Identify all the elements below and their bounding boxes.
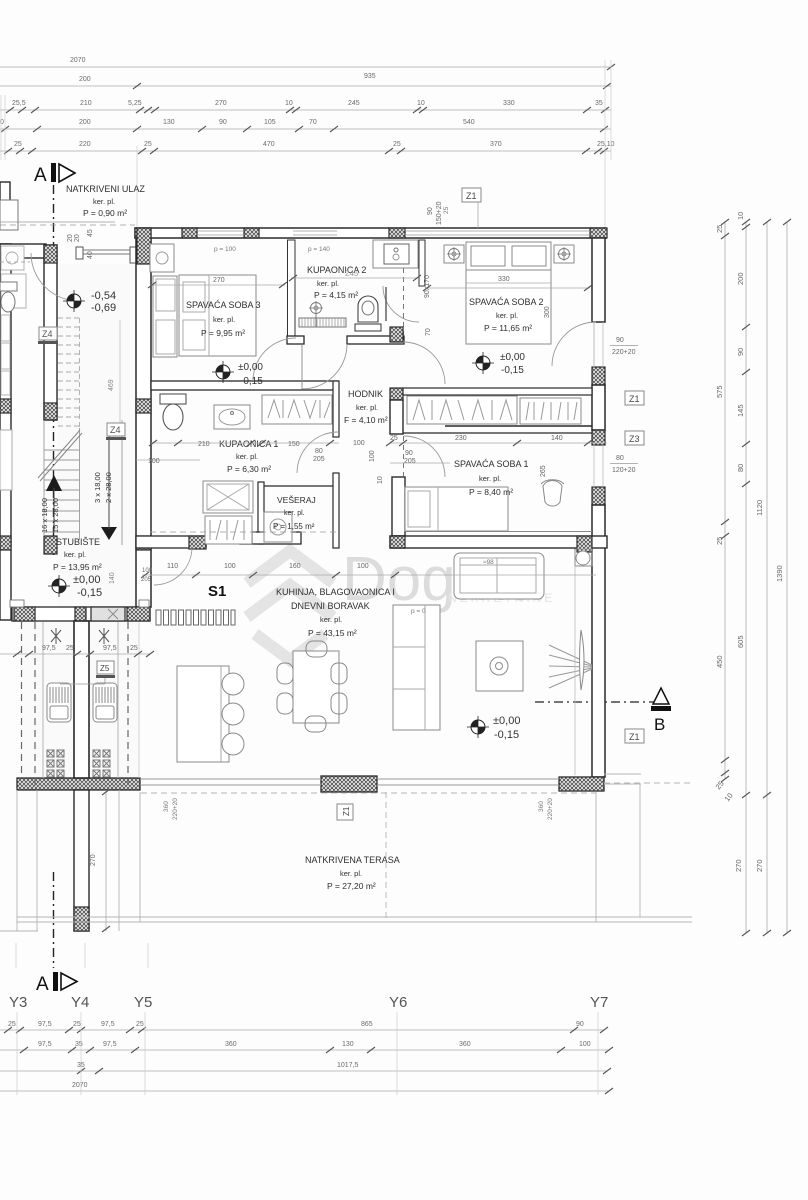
svg-text:97,5: 97,5 — [42, 645, 56, 652]
svg-text:145: 145 — [736, 404, 745, 417]
svg-text:370: 370 — [490, 141, 502, 148]
svg-text:2070: 2070 — [72, 1082, 88, 1089]
svg-text:100: 100 — [224, 563, 236, 570]
svg-text:-0,15: -0,15 — [501, 365, 524, 376]
svg-text:VEŠERAJ: VEŠERAJ — [277, 495, 316, 505]
svg-text:25,5: 25,5 — [12, 100, 26, 107]
svg-text:Y3: Y3 — [9, 994, 27, 1011]
svg-text:360: 360 — [163, 801, 170, 812]
svg-text:90: 90 — [427, 207, 434, 215]
svg-text:Z1: Z1 — [342, 806, 351, 816]
svg-text:25: 25 — [393, 141, 401, 148]
svg-text:205: 205 — [141, 577, 152, 583]
svg-text:16 x 18,00: 16 x 18,00 — [40, 498, 49, 533]
svg-text:35: 35 — [75, 1041, 83, 1048]
svg-text:100: 100 — [148, 458, 160, 465]
svg-text:97,5: 97,5 — [103, 645, 117, 652]
svg-text:20: 20 — [74, 234, 81, 242]
svg-text:575: 575 — [715, 385, 724, 398]
svg-text:300: 300 — [544, 306, 551, 318]
svg-text:130: 130 — [342, 1041, 354, 1048]
svg-text:STUBIŠTE: STUBIŠTE — [56, 537, 100, 547]
svg-text:140: 140 — [551, 435, 563, 442]
svg-text:NATKRIVENA TERASA: NATKRIVENA TERASA — [305, 855, 400, 865]
svg-text:25: 25 — [715, 225, 724, 233]
svg-text:10: 10 — [285, 100, 293, 107]
svg-text:205: 205 — [313, 456, 325, 463]
svg-text:KUHINJA, BLAGOVAONICA I: KUHINJA, BLAGOVAONICA I — [276, 587, 395, 597]
svg-text:90: 90 — [576, 1021, 584, 1028]
svg-text:97,5: 97,5 — [103, 1041, 117, 1048]
svg-text:35: 35 — [595, 100, 603, 107]
svg-text:25: 25 — [715, 537, 724, 545]
svg-text:200: 200 — [736, 272, 745, 285]
svg-text:540: 540 — [463, 119, 475, 126]
svg-text:±0,00: ±0,00 — [238, 362, 263, 373]
svg-text:20: 20 — [67, 234, 74, 242]
svg-text:P = 27,20 m²: P = 27,20 m² — [327, 881, 376, 891]
svg-text:130: 130 — [163, 119, 175, 126]
svg-text:P = 11,65 m²: P = 11,65 m² — [484, 323, 532, 333]
svg-text:S1: S1 — [208, 583, 226, 600]
svg-text:p = 140: p = 140 — [308, 246, 330, 253]
svg-text:25: 25 — [390, 435, 398, 442]
svg-text:220+20: 220+20 — [547, 798, 554, 820]
svg-text:25: 25 — [130, 645, 138, 652]
svg-text:15 x 28,00: 15 x 28,00 — [51, 498, 60, 533]
svg-text:270: 270 — [213, 277, 225, 284]
svg-text:470: 470 — [263, 141, 275, 148]
svg-text:5,25: 5,25 — [128, 100, 142, 107]
svg-text:2070: 2070 — [70, 57, 86, 64]
svg-text:245: 245 — [348, 100, 360, 107]
svg-text:150: 150 — [288, 441, 300, 448]
svg-text:25: 25 — [14, 141, 22, 148]
svg-text:100: 100 — [369, 450, 376, 462]
svg-text:ker. pl.: ker. pl. — [340, 869, 362, 878]
svg-text:HODNIK: HODNIK — [348, 389, 383, 399]
svg-text:245: 245 — [345, 269, 359, 278]
svg-text:200: 200 — [79, 119, 91, 126]
svg-text:25: 25 — [144, 141, 152, 148]
svg-text:90: 90 — [616, 337, 624, 344]
svg-text:P = 1,55 m²: P = 1,55 m² — [273, 522, 315, 531]
svg-text:±0,00: ±0,00 — [493, 715, 520, 727]
svg-text:A: A — [34, 165, 47, 186]
svg-text:10: 10 — [377, 476, 384, 484]
svg-text:210: 210 — [198, 441, 210, 448]
svg-text:265: 265 — [540, 465, 547, 477]
svg-text:270: 270 — [755, 859, 764, 872]
svg-text:469: 469 — [108, 379, 115, 391]
svg-text:100: 100 — [142, 568, 153, 574]
svg-text:SPAVAĆA SOBA 3: SPAVAĆA SOBA 3 — [186, 300, 261, 310]
svg-text:100: 100 — [357, 563, 369, 570]
svg-text:P = 4,15 m²: P = 4,15 m² — [314, 290, 358, 300]
svg-text:210: 210 — [80, 100, 92, 107]
svg-text:Y7: Y7 — [590, 994, 608, 1011]
svg-text:Y5: Y5 — [134, 994, 152, 1011]
svg-text:605: 605 — [736, 635, 745, 648]
svg-text:±0,00: ±0,00 — [73, 574, 100, 586]
svg-text:230: 230 — [455, 435, 467, 442]
svg-text:A: A — [36, 974, 49, 995]
svg-text:90: 90 — [736, 348, 745, 356]
svg-text:Z1: Z1 — [629, 394, 640, 404]
svg-text:90: 90 — [405, 450, 413, 457]
svg-text:220+20: 220+20 — [612, 349, 636, 356]
svg-text:80: 80 — [616, 455, 624, 462]
svg-text:p = 100: p = 100 — [214, 246, 236, 253]
svg-text:P = 0,90 m²: P = 0,90 m² — [83, 208, 127, 218]
svg-text:330: 330 — [503, 100, 515, 107]
svg-text:270: 270 — [215, 100, 227, 107]
svg-text:70: 70 — [309, 119, 317, 126]
svg-text:97,5: 97,5 — [38, 1041, 52, 1048]
svg-text:Z1: Z1 — [629, 732, 640, 742]
svg-text:90x170: 90x170 — [424, 275, 431, 298]
svg-text:10: 10 — [736, 212, 745, 220]
svg-text:25: 25 — [73, 1021, 81, 1028]
svg-text:Z5: Z5 — [100, 664, 110, 673]
svg-text:97,5: 97,5 — [101, 1021, 115, 1028]
svg-text:P = 43,15 m²: P = 43,15 m² — [308, 628, 357, 638]
svg-text:-0,54: -0,54 — [91, 290, 116, 302]
svg-text:ker. pl.: ker. pl. — [236, 452, 258, 461]
svg-text:P = 6,30 m²: P = 6,30 m² — [227, 464, 271, 474]
svg-text:360: 360 — [459, 1041, 471, 1048]
svg-text:-0,15: -0,15 — [494, 729, 519, 741]
svg-text:25: 25 — [66, 645, 74, 652]
svg-text:Z4: Z4 — [42, 329, 53, 339]
svg-text:205: 205 — [404, 458, 416, 465]
svg-text:ker. pl.: ker. pl. — [93, 197, 115, 206]
svg-text:B: B — [654, 715, 665, 734]
svg-text:160: 160 — [289, 563, 301, 570]
svg-text:SPAVAĆA SOBA 1: SPAVAĆA SOBA 1 — [454, 459, 529, 469]
svg-text:200: 200 — [79, 76, 91, 83]
svg-text:P = 9,95 m²: P = 9,95 m² — [201, 328, 245, 338]
svg-text:P = 13,95 m²: P = 13,95 m² — [53, 562, 102, 572]
svg-text:Y4: Y4 — [71, 994, 89, 1011]
svg-text:330: 330 — [498, 276, 510, 283]
svg-text:-0,15: -0,15 — [240, 376, 263, 387]
svg-text:90: 90 — [219, 119, 227, 126]
svg-text:Z3: Z3 — [629, 434, 640, 444]
svg-text:10: 10 — [417, 100, 425, 107]
svg-text:220: 220 — [79, 141, 91, 148]
svg-text:360: 360 — [538, 801, 545, 812]
svg-text:360: 360 — [225, 1041, 237, 1048]
svg-text:140: 140 — [109, 572, 116, 584]
svg-text:ker. pl.: ker. pl. — [356, 403, 378, 412]
svg-text:220+20: 220+20 — [172, 798, 179, 820]
svg-text:100: 100 — [579, 1041, 591, 1048]
svg-text:935: 935 — [364, 73, 376, 80]
svg-text:≈98: ≈98 — [483, 559, 494, 566]
svg-text:1120: 1120 — [755, 500, 764, 516]
svg-text:ker. pl.: ker. pl. — [284, 510, 305, 517]
svg-text:ker. pl.: ker. pl. — [496, 311, 518, 320]
svg-text:120+20: 120+20 — [612, 467, 636, 474]
svg-text:105: 105 — [264, 119, 276, 126]
svg-text:p = 0: p = 0 — [411, 608, 426, 615]
svg-text:25,10: 25,10 — [597, 141, 615, 148]
svg-text:1390: 1390 — [775, 565, 784, 582]
svg-text:45: 45 — [87, 229, 94, 237]
svg-text:80: 80 — [736, 464, 745, 472]
svg-text:100: 100 — [353, 440, 365, 447]
svg-text:450: 450 — [715, 655, 724, 668]
svg-text:0: 0 — [0, 119, 4, 126]
svg-text:-0,69: -0,69 — [91, 302, 116, 314]
svg-text:KUPAONICA 1: KUPAONICA 1 — [219, 439, 278, 449]
svg-text:±0,00: ±0,00 — [500, 352, 525, 363]
svg-text:DNEVNI BORAVAK: DNEVNI BORAVAK — [291, 601, 370, 611]
svg-text:Y6: Y6 — [389, 994, 407, 1011]
svg-text:Z1: Z1 — [466, 191, 477, 201]
svg-text:25: 25 — [136, 1021, 144, 1028]
svg-text:150+20: 150+20 — [436, 201, 443, 225]
svg-text:25: 25 — [443, 206, 450, 214]
svg-text:80: 80 — [315, 448, 323, 455]
svg-text:SPAVAĆA SOBA 2: SPAVAĆA SOBA 2 — [469, 297, 544, 307]
svg-text:25: 25 — [8, 1021, 16, 1028]
svg-text:1017,5: 1017,5 — [337, 1062, 359, 1069]
svg-text:ker. pl.: ker. pl. — [317, 279, 339, 288]
svg-text:270: 270 — [90, 854, 97, 866]
svg-text:ker. pl.: ker. pl. — [320, 615, 342, 624]
svg-text:-0,15: -0,15 — [77, 587, 102, 599]
svg-text:2 x 28,00: 2 x 28,00 — [104, 472, 113, 503]
svg-text:97,5: 97,5 — [38, 1021, 52, 1028]
svg-text:Z4: Z4 — [110, 425, 121, 435]
svg-text:110: 110 — [167, 563, 178, 570]
svg-text:ker. pl.: ker. pl. — [479, 474, 501, 483]
svg-text:270: 270 — [734, 859, 743, 872]
svg-text:ker. pl.: ker. pl. — [213, 315, 235, 324]
svg-text:865: 865 — [361, 1021, 373, 1028]
svg-text:ker. pl.: ker. pl. — [64, 550, 86, 559]
svg-text:F = 4,10 m²: F = 4,10 m² — [344, 415, 388, 425]
svg-text:70: 70 — [425, 328, 432, 336]
svg-text:3 x 18,00: 3 x 18,00 — [93, 472, 102, 503]
svg-text:NATKRIVENI ULAZ: NATKRIVENI ULAZ — [66, 184, 145, 194]
svg-text:40: 40 — [87, 251, 94, 259]
svg-text:P = 8,40 m²: P = 8,40 m² — [469, 487, 513, 497]
